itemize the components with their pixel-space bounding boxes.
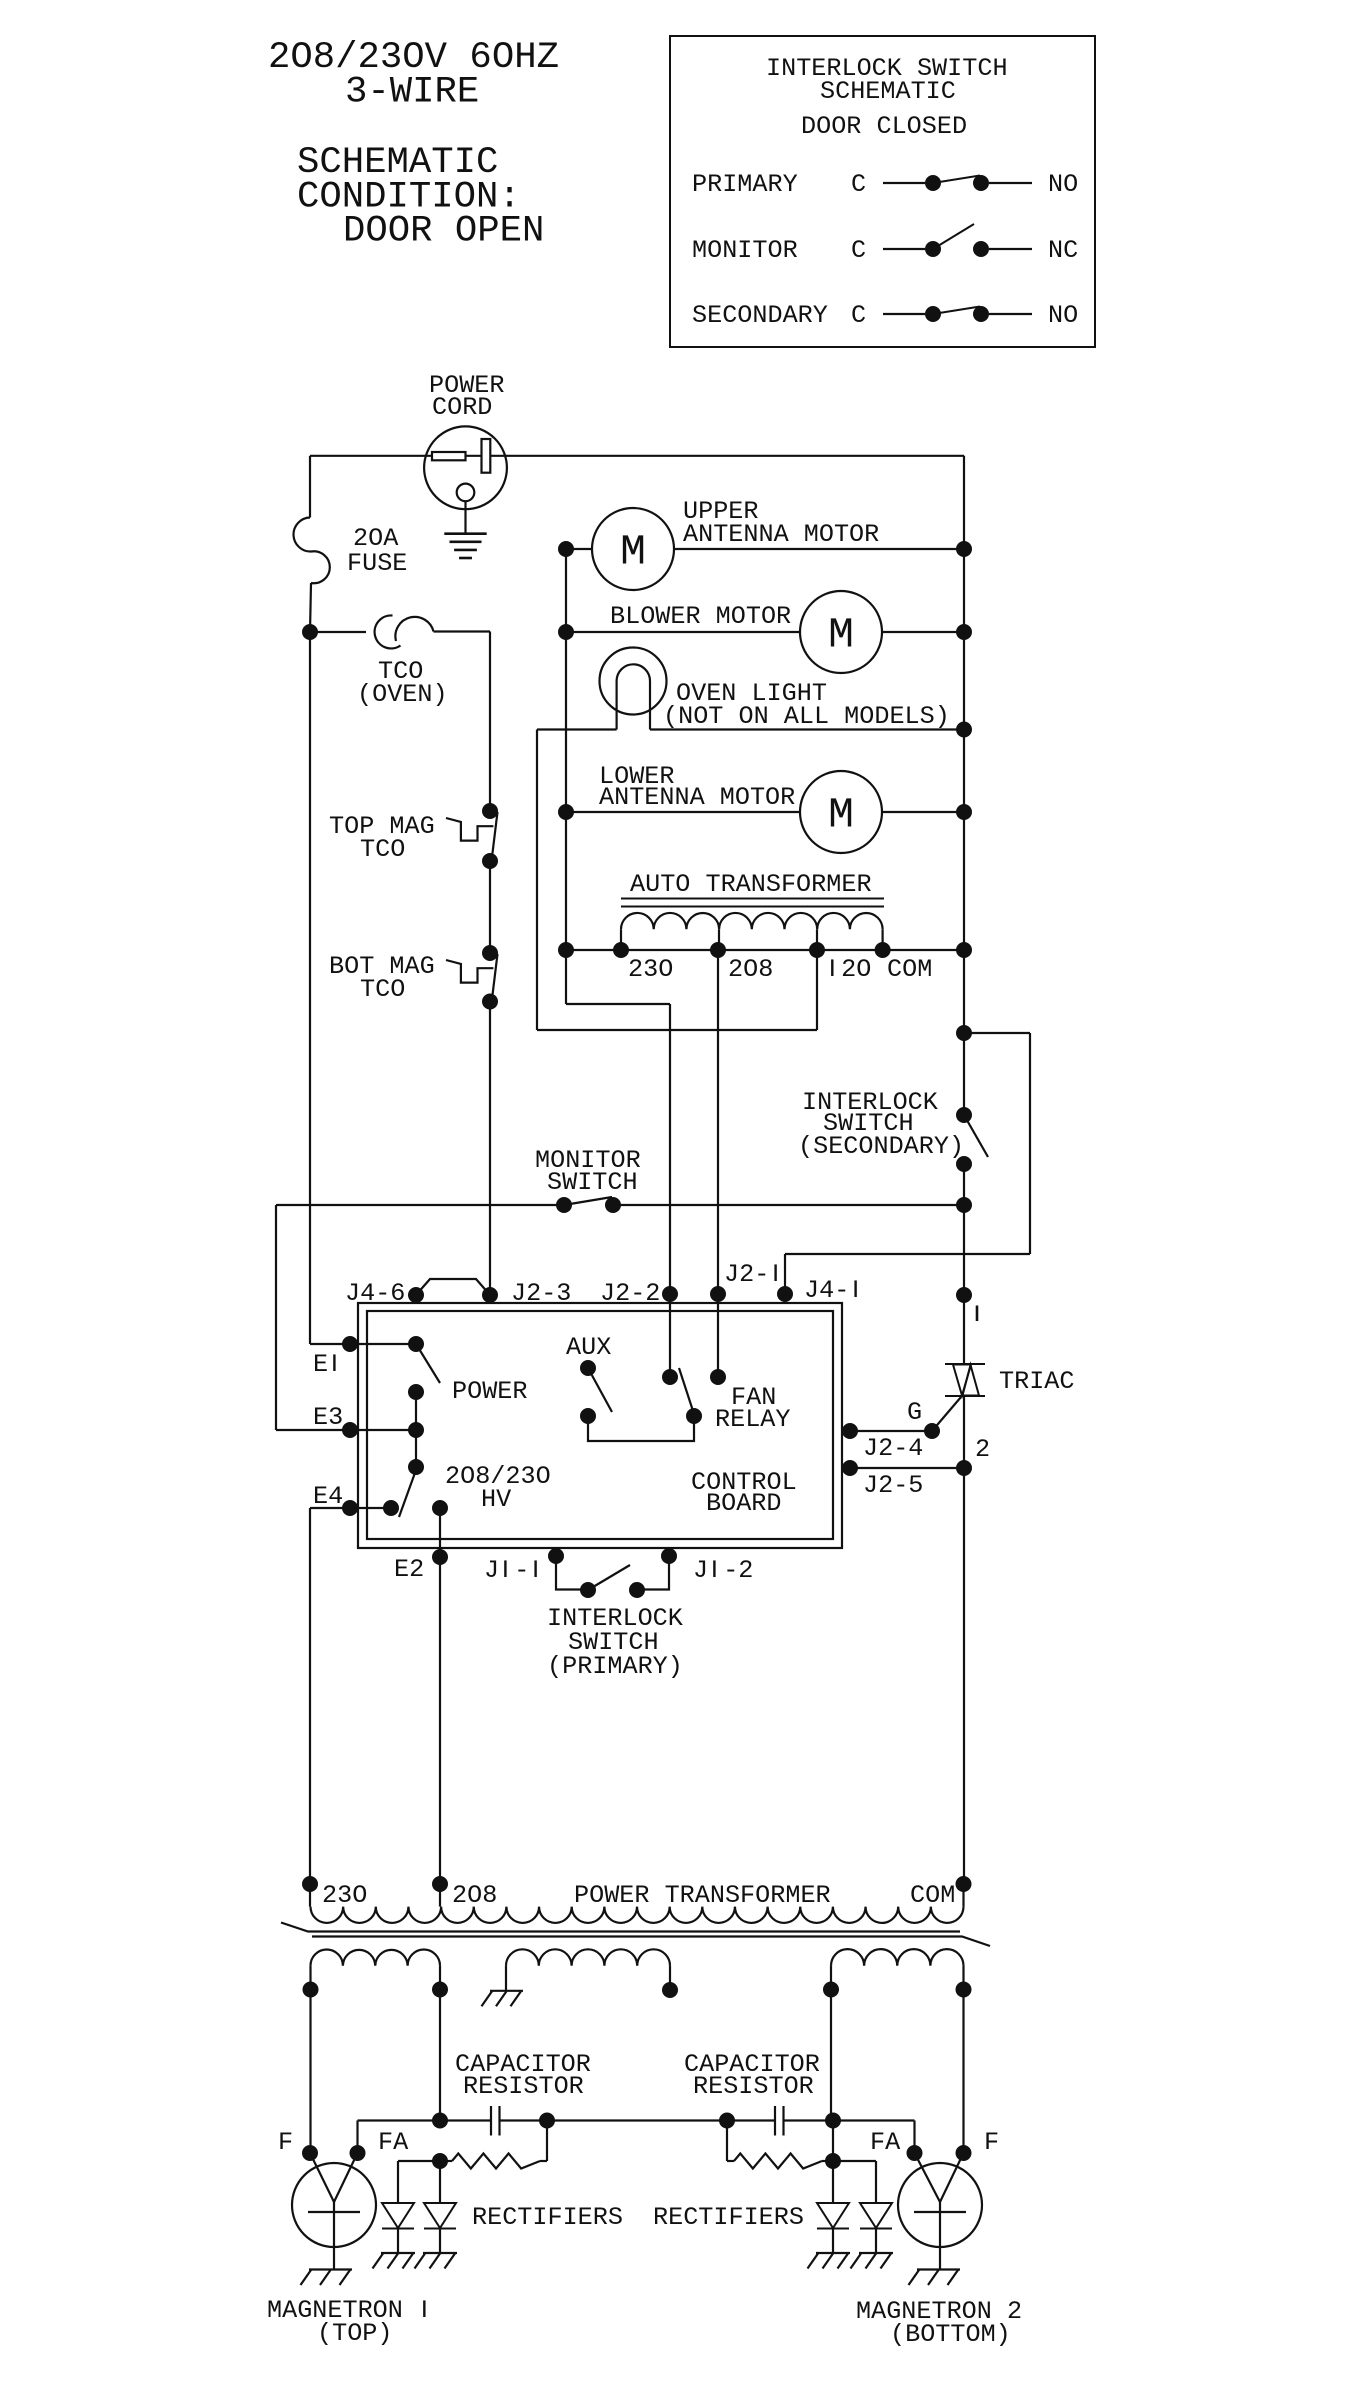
svg-text:(BOTTOM): (BOTTOM) (890, 2320, 1011, 2349)
svg-text:MONITOR: MONITOR (692, 236, 798, 265)
svg-text:DOOR OPEN: DOOR OPEN (343, 211, 544, 253)
svg-text:RECTIFIERS: RECTIFIERS (472, 2203, 623, 2232)
svg-text:2: 2 (975, 1435, 990, 1464)
svg-text:G: G (907, 1398, 922, 1427)
svg-text:SWITCH: SWITCH (547, 1168, 638, 1197)
svg-text:RECTIFIERS: RECTIFIERS (653, 2203, 804, 2232)
svg-text:COM: COM (910, 1881, 955, 1910)
svg-text:F: F (278, 2128, 293, 2157)
svg-text:POWER TRANSFORMER: POWER TRANSFORMER (574, 1881, 831, 1910)
svg-text:2O8: 2O8 (728, 955, 773, 984)
svg-text:(SECONDARY): (SECONDARY) (798, 1132, 964, 1161)
svg-text:-2: -2 (723, 1556, 753, 1585)
svg-text:C: C (851, 301, 866, 330)
svg-text:NO: NO (1048, 170, 1078, 199)
svg-text:CORD: CORD (432, 393, 492, 422)
svg-text:NO: NO (1048, 301, 1078, 330)
svg-text:J4-6: J4-6 (345, 1279, 405, 1308)
svg-text:FA: FA (378, 2128, 409, 2157)
svg-text:J: J (693, 1556, 708, 1585)
svg-text:ANTENNA MOTOR: ANTENNA MOTOR (599, 783, 795, 812)
svg-text:RESISTOR: RESISTOR (693, 2072, 814, 2101)
svg-text:J2-5: J2-5 (863, 1471, 923, 1500)
svg-text:3-WIRE: 3-WIRE (345, 72, 479, 114)
svg-text:HV: HV (481, 1485, 511, 1514)
svg-text:COM: COM (887, 955, 932, 984)
svg-text:BOARD: BOARD (706, 1489, 781, 1518)
svg-text:2O8: 2O8 (452, 1881, 497, 1910)
svg-text:RELAY: RELAY (715, 1405, 790, 1434)
svg-text:M: M (620, 528, 646, 577)
svg-text:J4-: J4- (804, 1276, 849, 1305)
svg-text:23O: 23O (628, 955, 673, 984)
svg-text:BLOWER MOTOR: BLOWER MOTOR (610, 602, 791, 631)
svg-text:POWER: POWER (452, 1377, 527, 1406)
svg-text:-: - (514, 1556, 529, 1585)
svg-text:C: C (851, 170, 866, 199)
svg-text:TCO: TCO (360, 835, 405, 864)
svg-text:2O: 2O (841, 955, 871, 984)
svg-text:(TOP): (TOP) (317, 2319, 392, 2348)
svg-text:TRIAC: TRIAC (999, 1367, 1074, 1396)
svg-text:E2: E2 (394, 1555, 424, 1584)
svg-text:E3: E3 (313, 1403, 343, 1432)
svg-text:SCHEMATIC: SCHEMATIC (820, 77, 956, 106)
svg-text:F: F (984, 2128, 999, 2157)
svg-text:23O: 23O (322, 1881, 367, 1910)
svg-text:FA: FA (870, 2128, 901, 2157)
svg-text:RESISTOR: RESISTOR (463, 2072, 584, 2101)
svg-text:(NOT ON ALL MODELS): (NOT ON ALL MODELS) (663, 702, 950, 731)
svg-text:M: M (828, 791, 854, 840)
svg-text:AUX: AUX (566, 1333, 611, 1362)
svg-text:E4: E4 (313, 1482, 343, 1511)
svg-text:J2-4: J2-4 (863, 1434, 923, 1463)
svg-text:NC: NC (1048, 236, 1078, 265)
svg-text:FUSE: FUSE (347, 549, 407, 578)
svg-text:TCO: TCO (360, 975, 405, 1004)
svg-text:DOOR CLOSED: DOOR CLOSED (801, 112, 967, 141)
svg-text:(PRIMARY): (PRIMARY) (547, 1652, 683, 1681)
svg-text:AUTO TRANSFORMER: AUTO TRANSFORMER (630, 870, 872, 899)
svg-text:M: M (828, 611, 854, 660)
svg-text:E: E (313, 1350, 328, 1379)
svg-text:J: J (484, 1556, 499, 1585)
svg-text:SECONDARY: SECONDARY (692, 301, 828, 330)
svg-text:J2-: J2- (724, 1260, 769, 1289)
svg-text:J2-2: J2-2 (600, 1279, 660, 1308)
svg-text:C: C (851, 236, 866, 265)
svg-text:PRIMARY: PRIMARY (692, 170, 798, 199)
svg-text:J2-3: J2-3 (511, 1279, 571, 1308)
svg-text:(OVEN): (OVEN) (357, 680, 448, 709)
svg-text:ANTENNA MOTOR: ANTENNA MOTOR (683, 520, 879, 549)
